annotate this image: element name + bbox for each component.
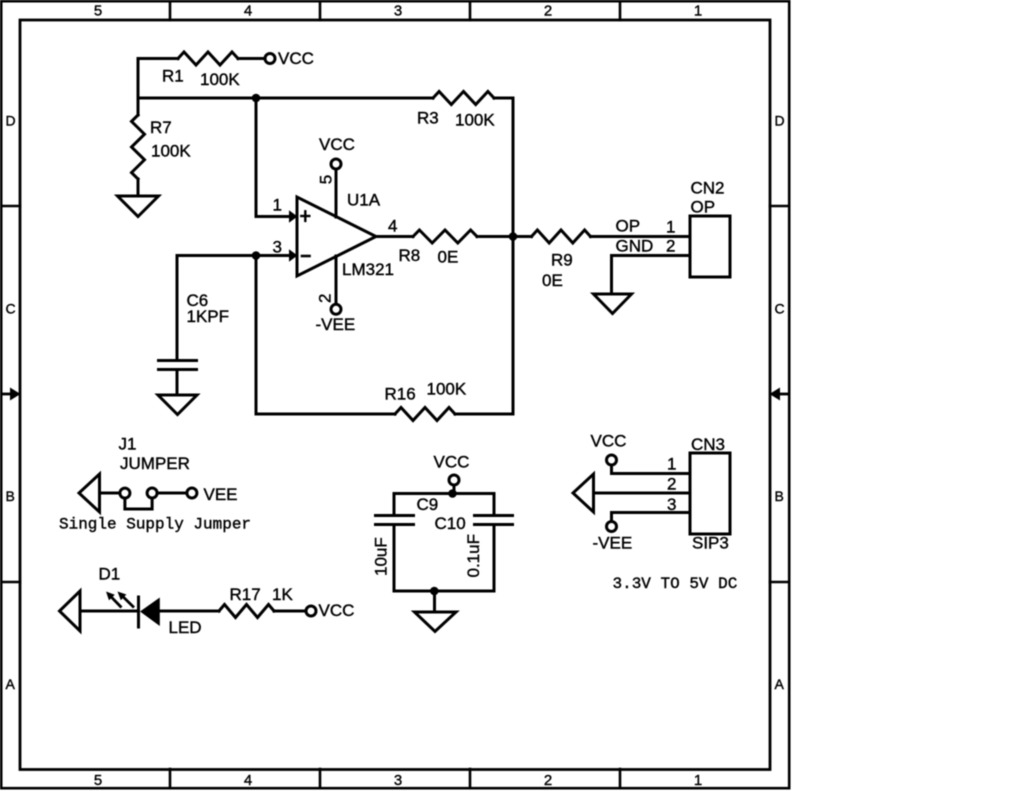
- svg-text:2: 2: [316, 294, 335, 303]
- power arrow at CN3: [573, 474, 594, 512]
- svg-text:D: D: [775, 113, 785, 129]
- svg-text:CN2: CN2: [691, 179, 725, 198]
- wire R1 left lead to corner: [138, 59, 178, 116]
- ground symbol at C6: [158, 395, 197, 415]
- op-amp minus input arrowhead: [289, 249, 298, 262]
- svg-text:A: A: [775, 676, 785, 692]
- J1 shorting link: [125, 498, 152, 509]
- svg-text:1KPF: 1KPF: [187, 307, 230, 326]
- svg-text:VCC: VCC: [278, 49, 314, 68]
- svg-text:3: 3: [667, 495, 676, 514]
- svg-text:4: 4: [244, 772, 252, 789]
- top ruler tick 2/1: [619, 2, 622, 20]
- op-amp VEE pin wire: [335, 256, 338, 304]
- resistor R16: [395, 408, 455, 421]
- wire R1 right lead to VCC terminal: [238, 57, 264, 60]
- capacitor C9 bottom lead: [393, 526, 396, 591]
- svg-text:SIP3: SIP3: [692, 534, 729, 553]
- left ruler tick D/C: [2, 205, 20, 208]
- svg-text:2: 2: [666, 237, 675, 256]
- svg-text:D: D: [6, 113, 16, 129]
- wire VCC to top rail: [453, 485, 456, 493]
- op-amp plus input arrowhead: [289, 210, 298, 223]
- op-amp plus symbol: [301, 211, 309, 221]
- VCC terminal circle at CN3: [607, 455, 617, 465]
- resistor R3: [433, 92, 494, 105]
- svg-text:100K: 100K: [455, 111, 495, 130]
- resistor R17: [219, 605, 274, 618]
- wire D1 arrow to LED cathode: [80, 610, 137, 613]
- wire R8 to output node: [477, 235, 532, 238]
- resistor R8: [413, 230, 477, 243]
- right ruler tick B/A: [770, 581, 789, 584]
- resistor R1: [178, 52, 238, 65]
- svg-text:U1A: U1A: [347, 191, 381, 210]
- junction dot ground rail C9 C10: [430, 587, 439, 596]
- svg-text:R8: R8: [399, 246, 421, 265]
- svg-text:R1: R1: [162, 67, 184, 86]
- inner border frame: [20, 20, 770, 770]
- power arrow at D1: [60, 591, 81, 631]
- svg-text:D1: D1: [99, 565, 121, 584]
- svg-text:10uF: 10uF: [372, 537, 391, 576]
- capacitor C10 plates: [475, 516, 513, 525]
- J1 pin 2 circle: [147, 488, 157, 498]
- svg-text:100K: 100K: [151, 142, 191, 161]
- wire CN3 pin 2: [594, 492, 691, 495]
- wire main node row y98: [138, 97, 433, 100]
- svg-text:1: 1: [694, 2, 702, 19]
- wire op-amp plus input from node: [256, 98, 289, 217]
- VCC terminal circle at R17: [306, 606, 316, 616]
- svg-text:R16: R16: [385, 385, 416, 404]
- junction dot output node: [509, 232, 518, 241]
- svg-text:2: 2: [544, 2, 552, 19]
- right mid alignment arrow: [770, 388, 789, 401]
- svg-text:100K: 100K: [200, 70, 240, 89]
- svg-text:OP: OP: [616, 217, 641, 236]
- capacitor C6 plates: [159, 361, 197, 370]
- wire J1 pin2 to VEE terminal: [157, 492, 186, 495]
- wire C9 C10 top rail: [394, 492, 494, 495]
- wire R7 bottom lead: [137, 179, 140, 196]
- wire LED to R17: [160, 610, 220, 613]
- LED light arrow 2: [118, 592, 134, 607]
- svg-text:C10: C10: [435, 514, 466, 533]
- bottom ruler tick 4/3: [319, 769, 322, 788]
- top ruler tick 3/2: [469, 2, 472, 20]
- wire R17 to VCC terminal: [274, 610, 306, 613]
- svg-text:5: 5: [94, 2, 102, 19]
- svg-text:VEE: VEE: [204, 485, 238, 504]
- svg-text:5: 5: [317, 175, 336, 184]
- resistor R9: [532, 230, 591, 243]
- svg-text:VCC: VCC: [319, 601, 355, 620]
- wire CN2 pin 2 GND: [612, 256, 691, 294]
- svg-text:A: A: [6, 676, 16, 692]
- svg-text:LED: LED: [169, 618, 202, 637]
- wire J1 arrow to pin1: [100, 492, 120, 495]
- junction dot inverting input: [252, 251, 261, 260]
- -VEE terminal circle at CN3: [607, 522, 617, 532]
- svg-text:R3: R3: [417, 109, 439, 128]
- svg-text:1: 1: [273, 196, 282, 215]
- svg-text:2: 2: [667, 475, 676, 494]
- resistor R7: [132, 115, 145, 179]
- wire op-amp output: [376, 235, 413, 238]
- LED D1 triangle: [140, 598, 160, 627]
- op-amp VCC pin wire: [335, 170, 338, 218]
- svg-text:VCC: VCC: [319, 135, 355, 154]
- svg-text:VCC: VCC: [591, 432, 627, 451]
- LED D1 cathode bar: [137, 597, 140, 627]
- capacitor C9 top lead: [393, 494, 396, 515]
- svg-text:B: B: [6, 488, 15, 504]
- svg-text:JUMPER: JUMPER: [120, 454, 190, 473]
- connector CN3 box: [690, 453, 730, 534]
- LED light arrow 1: [106, 592, 121, 607]
- svg-text:-VEE: -VEE: [593, 534, 633, 553]
- svg-text:-VEE: -VEE: [316, 315, 356, 334]
- left ruler tick B/A: [2, 581, 20, 584]
- ground symbol at CN2: [594, 294, 632, 314]
- power arrow at J1: [79, 474, 100, 512]
- svg-text:3.3V TO 5V DC: 3.3V TO 5V DC: [613, 575, 738, 593]
- bottom ruler tick 5/4: [169, 769, 172, 788]
- svg-text:R7: R7: [150, 118, 172, 137]
- wire op-amp minus input row: [177, 254, 289, 257]
- wire feedback bottom row: [256, 413, 395, 416]
- ground symbol at C9 C10: [415, 612, 457, 632]
- svg-text:GND: GND: [616, 237, 654, 256]
- -VEE terminal circle at op-amp: [331, 304, 341, 314]
- svg-text:2: 2: [544, 772, 552, 789]
- svg-text:R17: R17: [230, 585, 261, 604]
- wire inverting node down to feedback: [255, 256, 258, 415]
- capacitor C6 top lead: [176, 256, 179, 360]
- wire R9 to CN2 pin 1: [591, 235, 691, 238]
- VEE terminal circle at J1: [187, 488, 197, 498]
- svg-text:C: C: [6, 300, 16, 316]
- svg-text:0.1uF: 0.1uF: [464, 534, 483, 577]
- svg-text:C: C: [775, 300, 785, 316]
- junction dot VCC rail C9 C10: [448, 489, 457, 498]
- right ruler tick D/C: [770, 205, 789, 208]
- svg-text:3: 3: [394, 2, 402, 19]
- svg-text:4: 4: [388, 217, 397, 236]
- svg-text:1: 1: [666, 218, 675, 237]
- capacitor C6 bottom lead: [176, 371, 179, 395]
- svg-text:0E: 0E: [542, 271, 563, 290]
- connector CN2 box: [690, 216, 730, 277]
- svg-text:1K: 1K: [272, 585, 293, 604]
- svg-text:VCC: VCC: [434, 453, 470, 472]
- svg-text:1: 1: [694, 772, 702, 789]
- svg-text:C9: C9: [417, 495, 439, 514]
- VCC terminal circle at op-amp: [331, 159, 341, 169]
- op-amp minus symbol: [302, 255, 310, 258]
- J1 pin 1 circle: [120, 488, 130, 498]
- svg-text:3: 3: [394, 772, 402, 789]
- svg-text:J1: J1: [119, 435, 137, 454]
- wire bottom rail to ground: [433, 591, 436, 612]
- svg-text:1: 1: [667, 455, 676, 474]
- outer border frame: [1, 1, 789, 788]
- VCC terminal circle at C9 C10: [449, 475, 459, 485]
- svg-text:CN3: CN3: [691, 435, 725, 454]
- svg-text:3: 3: [273, 238, 282, 257]
- capacitor C9 plates: [376, 516, 414, 525]
- svg-text:B: B: [775, 488, 784, 504]
- wire R3 right lead and vertical to feedback bottom: [494, 98, 513, 414]
- bottom ruler tick 2/1: [619, 769, 622, 788]
- svg-text:OP: OP: [691, 198, 716, 217]
- wire R16 right lead: [455, 413, 513, 416]
- svg-text:0E: 0E: [438, 248, 459, 267]
- svg-text:4: 4: [244, 2, 252, 19]
- wire C9 C10 bottom rail: [394, 590, 494, 593]
- top ruler tick 4/3: [319, 2, 322, 20]
- wire CN3 pin 1: [612, 465, 691, 473]
- svg-text:LM321: LM321: [342, 260, 394, 279]
- junction dot main node: [252, 94, 261, 103]
- svg-text:100K: 100K: [427, 380, 467, 399]
- left mid alignment arrow: [2, 388, 21, 401]
- bottom ruler tick 3/2: [469, 769, 472, 788]
- top ruler tick 5/4: [169, 2, 172, 20]
- svg-text:5: 5: [94, 772, 102, 789]
- ground symbol at R7: [118, 196, 159, 217]
- VCC terminal circle at R1: [265, 54, 275, 64]
- wire CN3 pin 3: [612, 513, 691, 522]
- svg-text:R9: R9: [551, 251, 573, 270]
- capacitor C10 bottom lead: [493, 526, 496, 591]
- op-amp U1A triangle: [297, 197, 376, 276]
- svg-text:Single Supply Jumper: Single Supply Jumper: [59, 516, 251, 534]
- capacitor C10 top lead: [493, 494, 496, 515]
